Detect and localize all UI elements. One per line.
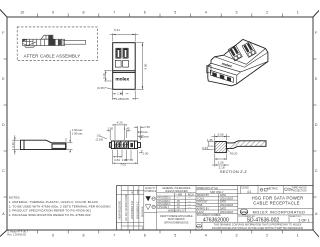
svg-text:molex: molex <box>115 76 129 82</box>
zone ticks left <box>4 59 8 197</box>
svg-text:ITAB: ITAB <box>197 203 203 207</box>
svg-text:1.00max: 1.00max <box>72 131 83 135</box>
svg-text:D: D <box>2 123 5 127</box>
svg-text:PROJECTION: PROJECTION <box>292 191 307 193</box>
section hatch <box>215 141 266 153</box>
svg-text:CABLE RECEPTACLE: CABLE RECEPTACLE <box>253 201 300 206</box>
svg-text:SYMBOLS: SYMBOLS <box>144 190 156 193</box>
svg-text:MOLEX INCORPORATED: MOLEX INCORPORATED <box>253 210 306 214</box>
front view bottom dims <box>113 90 139 100</box>
svg-text:molex: molex <box>240 210 248 214</box>
svg-text:7: 7 <box>113 11 115 15</box>
svg-text:C: C <box>2 169 5 173</box>
svg-text:7.01: 7.01 <box>120 163 126 167</box>
svg-text:4:1: 4:1 <box>247 190 252 194</box>
revision strip <box>117 186 144 230</box>
svg-text:THIRD ANGLE: THIRD ANGLE <box>291 187 307 190</box>
svg-text:9: 9 <box>52 234 54 238</box>
svg-text:5: 5 <box>174 234 176 238</box>
isometric front slot <box>210 70 233 82</box>
leader (0.35) front view <box>105 88 113 90</box>
svg-text:10: 10 <box>20 11 24 15</box>
svg-text:SHT: SHT <box>132 189 134 194</box>
svg-text:molex: molex <box>196 226 201 228</box>
svg-text:0.84: 0.84 <box>114 158 120 162</box>
svg-text:2001/10/18: 2001/10/18 <box>220 203 234 207</box>
bottom view dims above <box>100 124 144 140</box>
svg-text:9.80: 9.80 <box>144 63 148 69</box>
svg-text:3: 3 <box>236 11 238 15</box>
svg-text:KAZU: KAZU <box>197 210 204 214</box>
front view body <box>113 43 136 90</box>
svg-text:5: 5 <box>174 11 176 15</box>
svg-text:1.06: 1.06 <box>218 161 224 165</box>
bottom view body <box>109 141 140 149</box>
svg-text:1: 1 <box>297 234 299 238</box>
svg-text:3. PRODUCT SPECIFICATION REFER: 3. PRODUCT SPECIFICATION REFER TO PS-476… <box>9 209 92 213</box>
svg-text:2001/10/18 S.H: 2001/10/18 S.H <box>130 201 134 219</box>
molex logo row <box>238 208 313 210</box>
svg-text:AFTER CABLE ASSEMBLY: AFTER CABLE ASSEMBLY <box>24 54 81 59</box>
svg-text:3.81: 3.81 <box>122 158 128 162</box>
zone letters left <box>2 31 5 216</box>
cable assembly wire <box>63 40 86 44</box>
svg-text:8: 8 <box>83 234 85 238</box>
svg-text:0.43: 0.43 <box>202 146 208 150</box>
svg-text:METRIC: METRIC <box>267 187 278 191</box>
svg-text:5.56: 5.56 <box>218 133 224 137</box>
svg-text:1.50: 1.50 <box>144 125 150 129</box>
right column top row <box>241 186 284 194</box>
svg-text:6.10: 6.10 <box>102 73 106 79</box>
svg-text:4. PACKAGE SPECIFICATION REFER: 4. PACKAGE SPECIFICATION REFER TO PK-476… <box>9 213 91 217</box>
isometric view silhouette <box>208 39 268 85</box>
svg-text:MM ONLY: MM ONLY <box>210 190 223 194</box>
notes block <box>9 195 112 217</box>
dim 9.80 front view right <box>136 43 144 90</box>
svg-text:SECTION Z-Z: SECTION Z-Z <box>220 170 248 174</box>
isometric top face ridge <box>208 49 268 85</box>
svg-text:8: 8 <box>83 11 85 15</box>
svg-text:6: 6 <box>144 234 146 238</box>
svg-text:WITHIN DIMENSIONS: WITHIN DIMENSIONS <box>164 221 189 224</box>
isometric top windows group2 <box>242 42 256 58</box>
svg-text:5.08±0.05: 5.08±0.05 <box>116 97 130 101</box>
svg-text:Z: Z <box>141 150 143 154</box>
svg-text:1.45: 1.45 <box>124 126 130 130</box>
svg-text:4.40: 4.40 <box>11 142 15 148</box>
zone letters right <box>315 31 318 216</box>
svg-text:5.41: 5.41 <box>114 28 120 32</box>
svg-text:1. MATERIAL: THERMAL PLASTIC,: 1. MATERIAL: THERMAL PLASTIC, UL94V-0, C… <box>9 200 99 204</box>
svg-text:2001/10/18 Y.C: 2001/10/18 Y.C <box>135 201 139 219</box>
bottom view hatch patches <box>115 142 128 149</box>
svg-text:1 OF 1: 1 OF 1 <box>298 219 310 223</box>
side view dim 4.40 <box>12 135 19 155</box>
svg-text:REVISION: REVISION <box>142 206 144 217</box>
dim 5.41 front view top <box>110 33 139 41</box>
svg-text:EC NO: UC2001-0049: EC NO: UC2001-0049 <box>124 194 128 220</box>
svg-text:2. TO BE USED WITH 47636-000x,: 2. TO BE USED WITH 47636-000x, 2 SETS TE… <box>9 204 112 208</box>
svg-text:C: C <box>315 169 318 173</box>
side view profile <box>20 140 66 149</box>
svg-text:2: 2 <box>266 234 268 238</box>
svg-text:(0.35): (0.35) <box>97 86 105 90</box>
zone ticks top <box>38 14 283 18</box>
doc number row <box>288 215 290 222</box>
tolerance table <box>157 186 196 230</box>
front view windows <box>115 48 128 67</box>
svg-text:9: 9 <box>52 11 54 15</box>
svg-text:1.00: 1.00 <box>143 151 149 155</box>
svg-text:476362000: 476362000 <box>203 217 229 223</box>
zone ticks bottom <box>38 230 283 234</box>
svg-text:4: 4 <box>205 11 207 15</box>
svg-text:(3.18): (3.18) <box>96 138 103 142</box>
svg-text:Rev. 1 2004/10/5: Rev. 1 2004/10/5 <box>7 234 26 237</box>
svg-text:ANGULAR ± 3°: ANGULAR ± 3° <box>168 209 185 212</box>
svg-text:REV: REV <box>137 189 139 194</box>
zone numbers bottom <box>52 234 299 238</box>
svg-text:R0.20: R0.20 <box>230 152 238 156</box>
svg-text:NOTES:: NOTES: <box>9 195 21 199</box>
title block outer <box>117 186 314 230</box>
svg-text:2.18: 2.18 <box>219 165 225 169</box>
zone ticks right <box>313 59 317 197</box>
isometric top windows group1 <box>228 45 242 61</box>
svg-text:D: D <box>315 123 318 127</box>
svg-text:1.45: 1.45 <box>207 138 213 142</box>
svg-text:SD-47636-002: SD-47636-002 <box>247 218 280 224</box>
revision note bottom-left <box>7 231 28 237</box>
svg-text:3: 3 <box>236 234 238 238</box>
bottom view dims below <box>113 150 143 164</box>
svg-text:4: 4 <box>205 234 207 238</box>
svg-text:2001/10/18: 2001/10/18 <box>220 197 234 201</box>
svg-text:YCHO: YCHO <box>197 197 205 201</box>
svg-text:1.20max: 1.20max <box>138 130 149 134</box>
section Z-Z left block <box>215 141 266 153</box>
isometric latch <box>207 66 211 73</box>
cable assembly terminal <box>23 35 65 47</box>
svg-text:Z: Z <box>141 135 143 139</box>
svg-text:4.20: 4.20 <box>117 120 123 124</box>
svg-text:1.20: 1.20 <box>117 91 123 95</box>
svg-text:6: 6 <box>144 11 146 15</box>
svg-text:2: 2 <box>266 11 268 15</box>
quality symbols box <box>144 186 157 230</box>
svg-text:1: 1 <box>297 11 299 15</box>
dim 6.10 front view left <box>104 71 111 81</box>
svg-text:1.50: 1.50 <box>107 126 113 130</box>
side view right dims <box>66 131 73 150</box>
svg-text:7: 7 <box>113 234 115 238</box>
after-cable-assembly dashed box <box>17 27 97 61</box>
middle column <box>196 186 313 223</box>
svg-text:2001/10/18: 2001/10/18 <box>220 210 234 214</box>
svg-text:INCORPORATED AND SHOULD NOT BE: INCORPORATED AND SHOULD NOT BE USED WITH… <box>212 227 303 230</box>
proprietary strip <box>201 222 203 230</box>
section dims <box>202 134 230 167</box>
svg-text:NEW RELEASE: NEW RELEASE <box>118 200 122 219</box>
zone numbers top <box>20 11 298 15</box>
